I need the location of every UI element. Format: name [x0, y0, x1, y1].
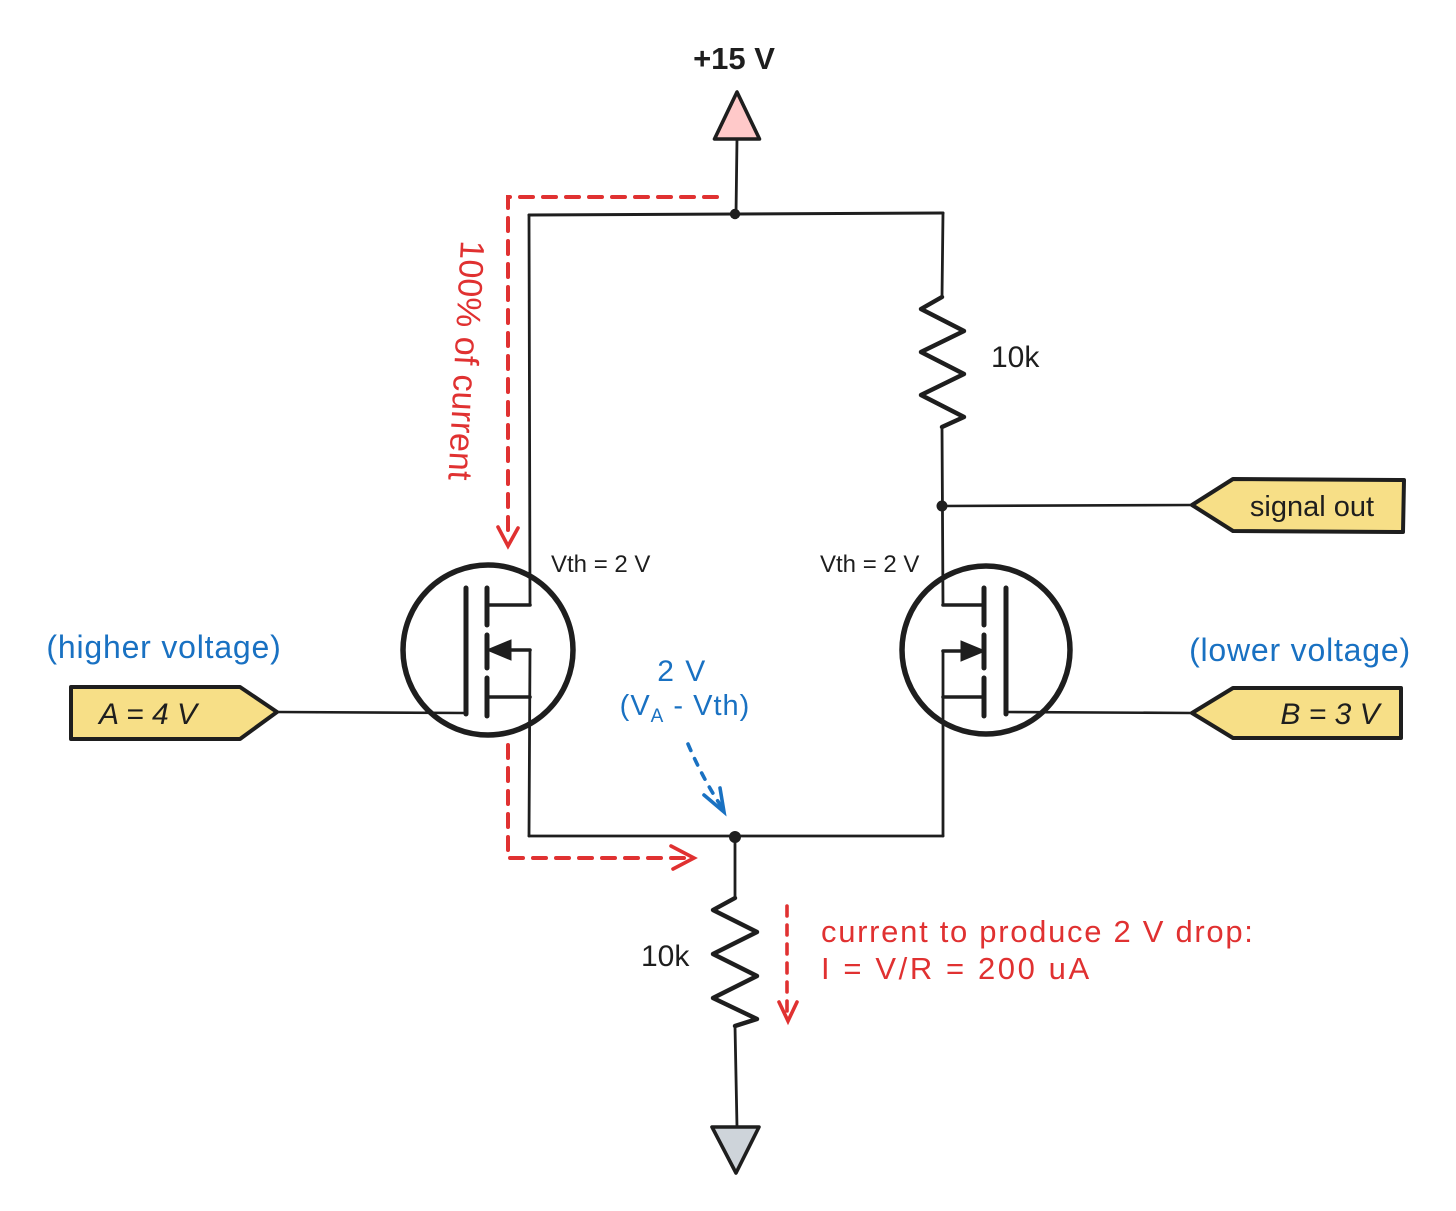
resistor RS 10k (tail resistor) — [713, 898, 757, 1026]
svg-text:B = 3 V: B = 3 V — [1280, 698, 1382, 731]
svg-text:A = 4 V: A = 4 V — [97, 698, 200, 731]
value label 10k (drain resistor) — [991, 341, 1040, 374]
tag signal out — [1192, 479, 1404, 532]
wire resistor RD to M2 drain — [942, 427, 943, 605]
red dashed current path (M1 source to tail node) — [508, 745, 694, 869]
transistor M1 (left NMOS) circle — [403, 565, 573, 735]
transistor M2 drain lead — [943, 603, 984, 607]
wire tail node to resistor RS — [734, 837, 737, 898]
wire right branch vertical (top rail to resistor) — [942, 213, 943, 297]
node tail junction — [729, 831, 741, 843]
label (lower voltage) — [1189, 632, 1411, 668]
wire M1 source down to tail rail — [529, 650, 530, 836]
svg-text:current to produce 2 V drop:: current to produce 2 V drop: — [821, 914, 1255, 949]
tag B = 3 V — [1192, 688, 1401, 738]
svg-text:(lower voltage): (lower voltage) — [1189, 632, 1411, 668]
label Vth = 2 V (M2) — [820, 551, 919, 578]
resistor RD 10k (drain resistor) — [921, 297, 964, 427]
svg-text:Vth = 2 V: Vth = 2 V — [820, 551, 919, 578]
annotation (VA - Vth) (blue) — [620, 690, 751, 727]
transistor M2 gate plate — [1004, 588, 1009, 714]
label (higher voltage) — [46, 629, 281, 665]
transistor M2 bulk arrow — [943, 641, 985, 661]
transistor M1 drain lead — [488, 603, 530, 607]
transistor M2 (right NMOS) circle — [902, 566, 1070, 734]
transistor M1 source lead — [488, 695, 530, 699]
svg-text:signal out: signal out — [1250, 491, 1374, 523]
svg-text:(VA - Vth): (VA - Vth) — [620, 690, 751, 727]
ground symbol — [712, 1127, 759, 1173]
transistor M1 bulk arrow — [487, 640, 530, 660]
wire to signal out tag — [942, 505, 1192, 506]
svg-text:2 V: 2 V — [657, 655, 707, 688]
label Vth = 2 V (M1) — [551, 551, 650, 578]
svg-text:+15 V: +15 V — [693, 41, 775, 76]
svg-text:100% of current: 100% of current — [440, 240, 491, 482]
annotation current to produce 2 V drop: — [821, 914, 1255, 949]
red dashed arrow through tail resistor — [779, 906, 797, 1021]
wire M2 source down to tail rail — [942, 651, 945, 836]
wire left branch vertical (top rail to M1 drain) — [529, 215, 530, 605]
wire top rail — [529, 213, 943, 215]
red dashed current path (top rail to M1 drain) — [498, 197, 717, 546]
tag A = 4 V — [71, 687, 277, 739]
label +15 V — [693, 41, 775, 76]
svg-text:I = V/R = 200 uA: I = V/R = 200 uA — [821, 951, 1092, 986]
annotation 100% of current (rotated red) — [440, 240, 491, 482]
transistor M1 gate plate — [464, 588, 469, 714]
wire supply triangle to top rail — [736, 139, 737, 214]
node signal out junction — [937, 501, 948, 512]
transistor M2 source lead — [943, 695, 984, 699]
node junction top rail — [730, 209, 740, 219]
wire tag A to M1 gate — [277, 712, 466, 713]
wire M2 gate to tag B — [1006, 712, 1192, 713]
blue dashed arrow to tail node — [688, 744, 724, 812]
value label 10k (tail resistor) — [641, 940, 690, 973]
annotation I = V/R = 200 uA — [821, 951, 1092, 986]
power supply symbol +15V (triangle) — [715, 92, 760, 139]
svg-text:Vth = 2 V: Vth = 2 V — [551, 551, 650, 578]
annotation 2 V (blue) — [657, 655, 707, 688]
svg-text:10k: 10k — [641, 940, 690, 973]
svg-text:(higher voltage): (higher voltage) — [46, 629, 281, 665]
wire resistor RS to ground — [735, 1026, 737, 1127]
transistor M2 channel (dashed) — [982, 588, 987, 716]
svg-text:10k: 10k — [991, 341, 1040, 374]
wire tail rail — [529, 835, 943, 838]
transistor M1 channel (dashed) — [485, 588, 490, 716]
